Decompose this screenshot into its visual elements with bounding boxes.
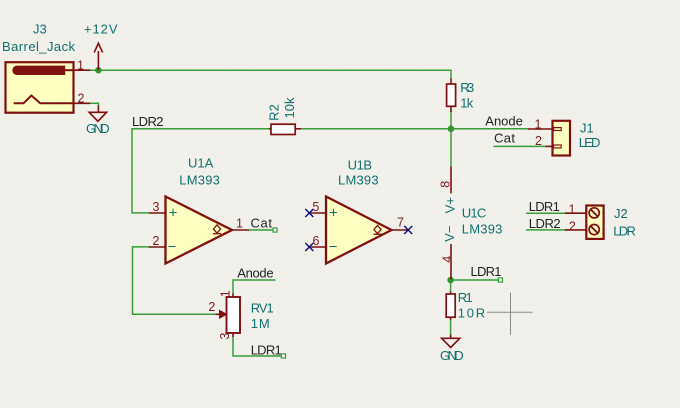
svg-text:1: 1 xyxy=(219,290,233,297)
svg-text:LED: LED xyxy=(579,135,601,150)
svg-text:R1: R1 xyxy=(458,290,473,305)
svg-text:LDR1: LDR1 xyxy=(471,264,502,279)
svg-text:U1A: U1A xyxy=(188,156,214,171)
svg-text:Anode: Anode xyxy=(485,114,523,129)
svg-text:−: − xyxy=(329,239,338,256)
svg-text:R3: R3 xyxy=(460,80,474,95)
svg-text:8: 8 xyxy=(439,181,453,188)
svg-text:2: 2 xyxy=(569,220,576,234)
svg-text:5: 5 xyxy=(312,200,319,214)
svg-text:LDR: LDR xyxy=(613,224,636,239)
svg-text:R2: R2 xyxy=(266,104,281,121)
svg-text:GND: GND xyxy=(86,121,110,136)
svg-text:+12V: +12V xyxy=(84,21,118,36)
svg-text:Anode: Anode xyxy=(237,266,273,281)
svg-text:+: + xyxy=(329,205,338,222)
svg-text:LM393: LM393 xyxy=(338,172,379,187)
svg-text:V+: V+ xyxy=(442,197,457,213)
svg-text:1M: 1M xyxy=(251,316,270,331)
svg-text:7: 7 xyxy=(397,216,404,230)
svg-text:J2: J2 xyxy=(614,206,628,221)
svg-text:V−: V− xyxy=(442,226,457,242)
svg-text:LDR2: LDR2 xyxy=(132,114,164,129)
svg-text:2: 2 xyxy=(208,300,215,314)
svg-text:1: 1 xyxy=(569,203,576,217)
svg-text:Barrel_Jack: Barrel_Jack xyxy=(2,39,76,54)
svg-text:GND: GND xyxy=(440,348,464,363)
svg-text:6: 6 xyxy=(313,234,320,248)
svg-text:LDR1: LDR1 xyxy=(251,343,282,358)
svg-text:1: 1 xyxy=(236,217,243,231)
svg-text:J1: J1 xyxy=(580,121,594,136)
svg-text:LM393: LM393 xyxy=(462,221,503,236)
svg-text:2: 2 xyxy=(153,234,160,248)
svg-text:U1C: U1C xyxy=(462,206,487,221)
svg-text:RV1: RV1 xyxy=(251,301,274,316)
svg-text:1: 1 xyxy=(77,59,84,73)
svg-text:4: 4 xyxy=(441,256,455,263)
svg-text:Cat: Cat xyxy=(494,131,515,146)
svg-text:1k: 1k xyxy=(460,96,474,111)
svg-text:J3: J3 xyxy=(33,22,47,37)
svg-text:3: 3 xyxy=(218,332,232,339)
svg-text:Cat: Cat xyxy=(251,216,273,231)
svg-text:−: − xyxy=(168,239,177,256)
svg-text:1: 1 xyxy=(535,117,542,131)
svg-text:+: + xyxy=(169,205,178,222)
svg-text:U1B: U1B xyxy=(348,158,373,173)
svg-text:2: 2 xyxy=(78,92,85,106)
svg-text:10k: 10k xyxy=(282,97,297,118)
svg-text:2: 2 xyxy=(535,134,542,148)
svg-text:10R: 10R xyxy=(458,306,486,321)
svg-text:LM393: LM393 xyxy=(179,172,220,187)
svg-text:LDR1: LDR1 xyxy=(529,199,560,214)
svg-text:3: 3 xyxy=(153,200,160,214)
svg-text:LDR2: LDR2 xyxy=(529,216,561,231)
